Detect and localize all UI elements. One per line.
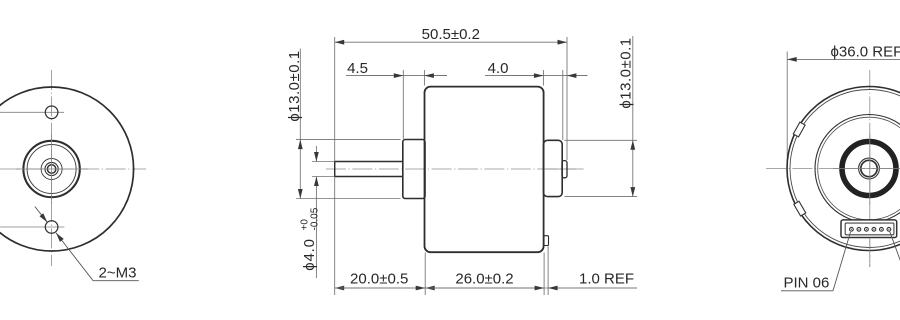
svg-text:-0.05: -0.05 xyxy=(310,207,321,230)
svg-text:2~M3: 2~M3 xyxy=(99,265,137,282)
svg-text:50.5±0.2: 50.5±0.2 xyxy=(422,26,480,43)
svg-text:20.0±0.5: 20.0±0.5 xyxy=(350,271,408,288)
svg-text:ϕ36.0 REF: ϕ36.0 REF xyxy=(831,44,900,61)
svg-text:1.0 REF: 1.0 REF xyxy=(579,271,634,288)
svg-text:ϕ13.0±0.1: ϕ13.0±0.1 xyxy=(286,50,303,121)
svg-text:4.0: 4.0 xyxy=(488,60,509,77)
svg-text:26.0±0.2: 26.0±0.2 xyxy=(455,271,513,288)
svg-text:ϕ4.0: ϕ4.0 xyxy=(301,238,318,270)
svg-text:ϕ13.0±0.1: ϕ13.0±0.1 xyxy=(618,37,635,108)
svg-text:4.5: 4.5 xyxy=(347,60,368,77)
svg-text:PIN 06: PIN 06 xyxy=(784,275,830,292)
